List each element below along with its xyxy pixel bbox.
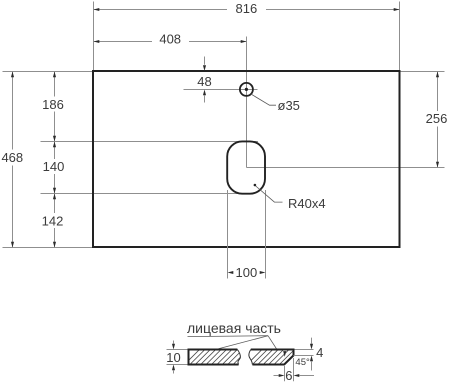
dimension 6 right arrow: [294, 374, 300, 377]
faucet hole circle ø35: [240, 83, 253, 96]
dimension 142 upper arrow: [53, 194, 56, 200]
dimension 408 line left segment: [94, 41, 153, 43]
leader leg to left bar: [219, 336, 269, 349]
right bar break line: [249, 350, 253, 365]
dimension 4 lower arrow: [310, 356, 313, 362]
dimension 10 lower arrow: [172, 365, 175, 371]
dimension 6 right extension line: [293, 358, 295, 381]
dimension 408 left arrow: [94, 40, 100, 43]
dimension 816 line right segment: [266, 9, 400, 11]
dimension 10 upper extension line: [167, 349, 188, 351]
dimension 48 lower arrow: [203, 90, 206, 96]
dimension 816 right arrow: [394, 8, 400, 11]
svg-text:10: 10: [166, 350, 180, 365]
dimension 4 upper arrow: [310, 344, 313, 350]
dimension 10 lower tail: [173, 370, 175, 373]
left bar break line: [237, 350, 240, 365]
dimension 186 upper arrow: [53, 72, 56, 78]
svg-text:ø35: ø35: [278, 98, 300, 113]
dimension 468 line lower segment: [12, 166, 14, 248]
dimension 4 upper tail: [311, 338, 313, 344]
extension line cutout bottom tangent: [41, 193, 253, 195]
svg-text:816: 816: [236, 1, 258, 16]
svg-text:45°: 45°: [295, 357, 310, 368]
svg-text:6: 6: [285, 368, 292, 383]
dimension 142 lower arrow: [53, 242, 56, 248]
extension line right of top-right corner: [400, 71, 445, 73]
dimension 140 upper arrow: [53, 142, 56, 148]
dimension 100 left extension line: [227, 190, 229, 279]
dimension 140 lower arrow: [53, 188, 56, 194]
dimension 256 line upper segment: [437, 72, 439, 112]
svg-text:142: 142: [42, 213, 64, 228]
right bar hatching: [246, 348, 307, 366]
leader leg to right bar: [268, 336, 277, 349]
dimension 468 lower arrow: [11, 242, 14, 248]
label underline: [188, 335, 269, 338]
sink cutout rounded rectangle R40x4: [227, 141, 265, 193]
dimension 100 left arrow: [228, 271, 234, 274]
svg-text:140: 140: [43, 159, 65, 174]
countertop outline rectangle: [93, 71, 400, 247]
dimension 4 lower extension line: [294, 355, 314, 357]
45 degree leader arrow: [283, 351, 286, 357]
horizontal centerline through faucet hole: [184, 89, 258, 91]
dimension 6 right tail: [299, 375, 314, 377]
svg-text:48: 48: [197, 74, 211, 89]
dimension 256 line lower segment: [437, 127, 439, 168]
extension line above top-left corner: [93, 2, 95, 71]
dimension 408 right arrow: [241, 40, 247, 43]
svg-text:лицевая часть: лицевая часть: [187, 320, 281, 336]
svg-text:100: 100: [236, 265, 258, 280]
svg-text:4: 4: [316, 345, 323, 360]
left bar outline: [189, 350, 239, 365]
dimension 4 lower tail: [311, 361, 313, 370]
svg-text:468: 468: [1, 150, 23, 165]
leader dot for R40x4: [254, 184, 257, 187]
dimension 186 line upper segment: [54, 72, 56, 97]
dimension 48 upper tail: [204, 57, 206, 65]
dimension 468 upper arrow: [11, 72, 14, 78]
dimension 100 right arrow: [260, 271, 266, 274]
dimension 142 line lower segment: [54, 228, 56, 248]
svg-text:408: 408: [159, 31, 181, 46]
right bar outline: [251, 350, 294, 365]
dimension 140/142 line middle segment: [54, 174, 56, 213]
dimension 186/140 line middle segment: [54, 112, 56, 160]
dimension 10 upper arrow: [172, 344, 175, 350]
dimension 48 upper arrow: [203, 65, 206, 71]
dimension 256 upper arrow: [436, 72, 439, 78]
dimension 100 right extension line: [265, 190, 267, 279]
dimension 48 lower tail: [204, 95, 206, 102]
dimension 468 line upper segment: [12, 72, 14, 150]
dimension 256 lower arrow: [436, 162, 439, 168]
dimension 4 upper extension line: [295, 349, 314, 351]
svg-text:186: 186: [42, 97, 64, 112]
extension line left of bottom-left corner: [3, 247, 93, 249]
faucet hole center dot: [245, 88, 248, 91]
svg-text:R40x4: R40x4: [288, 196, 326, 211]
dimension 10 upper tail: [173, 341, 175, 344]
dimension 186 lower arrow: [53, 136, 56, 142]
leader line for R40x4: [256, 186, 283, 202]
svg-text:256: 256: [426, 111, 448, 126]
extension line cutout top tangent: [41, 141, 259, 143]
left bar hatching: [183, 348, 255, 366]
dimension 6 left tail: [274, 375, 279, 377]
dimension 6 left arrow: [279, 374, 285, 377]
dimension 816 left arrow: [94, 8, 100, 11]
dimension 816 line left segment: [94, 9, 228, 11]
dimension 408 line right segment: [189, 41, 247, 43]
extension line above top-right corner: [399, 2, 401, 71]
dimension 10 lower extension line: [167, 364, 188, 366]
vertical centerline through faucet hole and cutout: [246, 37, 248, 168]
extension line left of top-left corner: [3, 71, 93, 73]
leader line for ø35: [251, 94, 276, 105]
horizontal centerline from cutout center to right dimension: [247, 167, 445, 169]
dimension 6 left extension line: [284, 366, 286, 381]
